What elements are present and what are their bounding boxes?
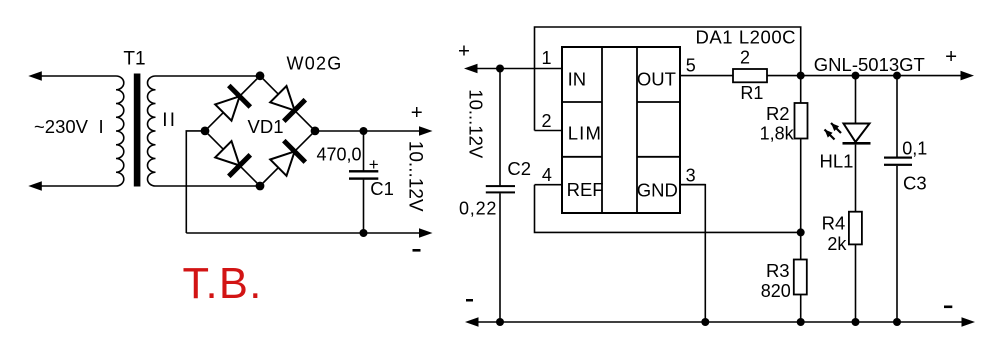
svg-text:GND: GND	[637, 179, 678, 200]
svg-text:OUT: OUT	[637, 68, 676, 89]
svg-text:2k: 2k	[827, 234, 847, 254]
svg-text:2: 2	[740, 48, 750, 68]
svg-text:I: I	[99, 116, 104, 137]
svg-text:3: 3	[686, 166, 696, 186]
svg-text:2: 2	[541, 111, 551, 131]
svg-text:0,1: 0,1	[902, 139, 927, 159]
svg-text:+: +	[945, 45, 957, 68]
svg-text:10...12V: 10...12V	[405, 141, 426, 212]
svg-text:C2: C2	[507, 158, 531, 179]
svg-text:I: I	[162, 110, 167, 131]
svg-text:I: I	[170, 110, 175, 131]
svg-text:5: 5	[686, 55, 696, 75]
svg-text:4: 4	[542, 165, 552, 185]
svg-text:DA1 L200C: DA1 L200C	[696, 27, 797, 48]
svg-text:LIM: LIM	[568, 122, 602, 143]
svg-text:R3: R3	[766, 260, 790, 281]
svg-text:10...12V: 10...12V	[465, 89, 486, 159]
svg-text:R2: R2	[766, 103, 790, 124]
svg-text:REF: REF	[567, 179, 604, 200]
svg-text:820: 820	[761, 281, 791, 301]
svg-text:C3: C3	[903, 172, 927, 193]
svg-text:0,22: 0,22	[459, 198, 497, 218]
svg-text:1,8k: 1,8k	[760, 123, 795, 143]
svg-text:1: 1	[541, 48, 551, 68]
svg-text:+: +	[411, 101, 423, 124]
svg-text:T.B.: T.B.	[183, 260, 263, 308]
svg-text:HL1: HL1	[820, 151, 854, 172]
svg-text:+: +	[369, 155, 379, 174]
svg-text:T1: T1	[123, 49, 145, 70]
svg-text:+: +	[458, 40, 470, 63]
svg-text:W02G: W02G	[287, 54, 343, 74]
svg-text:R4: R4	[822, 213, 846, 234]
svg-text:~230V: ~230V	[34, 116, 89, 137]
svg-text:C1: C1	[370, 178, 394, 199]
svg-text:R1: R1	[740, 83, 763, 103]
svg-text:IN: IN	[568, 68, 587, 89]
svg-text:VD1: VD1	[248, 116, 284, 137]
svg-text:470,0: 470,0	[317, 144, 362, 164]
svg-text:GNL-5013GT: GNL-5013GT	[814, 54, 925, 75]
